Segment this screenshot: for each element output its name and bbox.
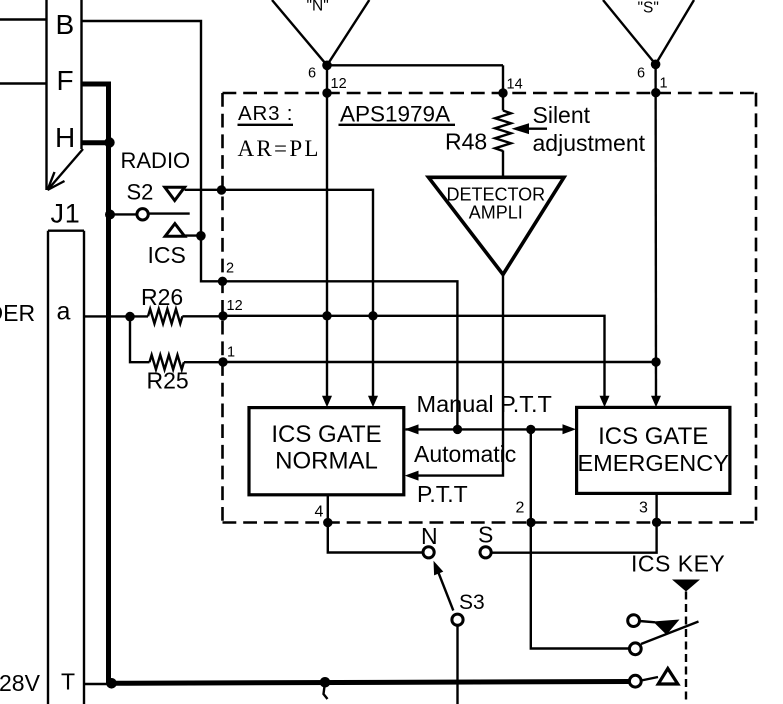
junction ICS wire — [196, 231, 206, 241]
wire pin 1 row to S line — [223, 361, 656, 363]
contact S — [480, 547, 491, 558]
node 1 (top border) — [651, 88, 660, 97]
wire pin 4 to contact N — [328, 495, 423, 553]
svg-text:J1: J1 — [51, 199, 81, 229]
svg-text:12: 12 — [227, 298, 243, 314]
thick 28V wire — [84, 683, 109, 685]
svg-text:F: F — [57, 65, 74, 96]
node 2 (left border) — [218, 277, 227, 286]
svg-text:T: T — [61, 669, 75, 695]
svg-text:P.T.T: P.T.T — [417, 481, 468, 507]
connector J1 — [48, 199, 84, 704]
ICS contact triangle — [165, 224, 184, 237]
svg-text:DER: DER — [0, 300, 35, 326]
svg-text:R25: R25 — [147, 368, 189, 394]
switch S2 — [105, 179, 190, 220]
svg-text:1: 1 — [227, 345, 235, 361]
svg-text:R26: R26 — [141, 284, 183, 310]
junction H — [104, 137, 114, 147]
junction row12/N-line — [322, 311, 331, 320]
op-amp DETECTOR AMPLI — [429, 177, 565, 274]
arrowhead into NORMAL (N line) — [322, 396, 332, 408]
arrowhead into EMERGENCY (row12 line) — [600, 396, 610, 407]
svg-text:"N": "N" — [307, 0, 329, 15]
svg-text:a: a — [57, 298, 71, 326]
RADIO contact triangle — [165, 187, 185, 200]
svg-text:ICS: ICS — [148, 242, 186, 268]
junction row1/S-line — [651, 357, 660, 366]
switch ICS KEY upper contact — [628, 615, 640, 627]
node 2 (bottom border) — [526, 518, 535, 527]
svg-text:Manual P.T.T: Manual P.T.T — [417, 391, 552, 417]
svg-text:6: 6 — [637, 66, 645, 82]
arrowhead into NORMAL (RADIO line) — [368, 396, 378, 408]
arrowhead into EMERGENCY (S line) — [651, 396, 661, 407]
triangle terminal — [658, 669, 678, 685]
wire pin 12 row to ICS GATE EMERGENCY — [223, 316, 605, 396]
wire pin 2 bottom to ICS KEY switch — [531, 429, 630, 648]
node 14 (top border) — [498, 88, 507, 97]
wire RADIO contact to ICS GATE NORMAL input — [185, 190, 373, 396]
junction on dashed border (RADIO wire) — [217, 185, 226, 194]
svg-text:AMPLI: AMPLI — [469, 203, 523, 223]
block ICS GATE EMERGENCY — [577, 407, 730, 493]
junction Manual/B-line — [453, 425, 462, 434]
svg-text:adjustment: adjustment — [533, 130, 646, 156]
svg-text:APS1979A: APS1979A — [340, 102, 450, 127]
junction on 28V wire — [320, 677, 331, 688]
switch S3 — [434, 561, 485, 626]
svg-text:S2: S2 — [127, 179, 154, 204]
node 1 (left border) — [218, 357, 227, 366]
wire branch down to R25 — [130, 317, 150, 363]
svg-text:NORMAL: NORMAL — [275, 448, 378, 475]
antenna triangle "N" — [272, 0, 369, 70]
svg-text:DETECTOR: DETECTOR — [446, 185, 545, 205]
antenna triangle "S" — [603, 0, 694, 69]
junction Manual/pin2B-line — [526, 425, 535, 434]
svg-text:2: 2 — [516, 500, 525, 517]
wire R48 to detector — [502, 151, 504, 178]
svg-text:N: N — [421, 523, 438, 549]
wire pin 14 down to R48 — [502, 65, 504, 110]
wire N tip down through pin 12 to ICS GATE NORMAL — [326, 65, 328, 396]
resistor R25 — [150, 355, 184, 370]
junction row12/RADIO-line — [368, 311, 377, 320]
silent adjustment arrow — [527, 127, 547, 129]
svg-text:ICS GATE: ICS GATE — [598, 423, 708, 450]
wire upper contact to pusher — [640, 621, 656, 622]
svg-text:S3: S3 — [459, 591, 485, 614]
svg-text:Automatic: Automatic — [414, 441, 516, 467]
svg-text:14: 14 — [507, 77, 523, 93]
svg-text:AR=PL: AR=PL — [238, 136, 321, 161]
ICS KEY actuator triangle — [672, 580, 700, 592]
wire R26 to pin 12 — [182, 315, 223, 317]
svg-text:R48: R48 — [445, 129, 487, 155]
contact 28V end — [629, 675, 641, 687]
dashed module border AR3 — [223, 93, 757, 523]
wire R25 to pin 1 — [184, 361, 223, 363]
wire to triangle terminal — [641, 677, 658, 681]
switch ICS KEY lower contact — [629, 643, 641, 655]
wire B to node 2 and down to Manual P.T.T line — [82, 21, 458, 429]
svg-text:AR3 :: AR3 : — [238, 102, 293, 125]
wire pin 3 to contact S — [491, 493, 656, 552]
wire F to thick 28V bus — [82, 84, 109, 683]
wire stub below junction — [324, 682, 328, 699]
junction a-branch — [125, 312, 135, 322]
wire Manual P.T.T — [406, 428, 564, 430]
svg-text:1: 1 — [660, 76, 668, 92]
resistor R26 — [148, 309, 182, 324]
switch ICS KEY lever — [641, 622, 699, 645]
svg-text:"S": "S" — [638, 0, 659, 17]
node 3 (bottom border) — [652, 518, 661, 527]
ICS KEY dashed linkage — [685, 592, 687, 704]
wire pin a to resistors — [84, 315, 148, 317]
pusher triangle — [653, 620, 680, 635]
resistor R48 — [495, 111, 511, 152]
svg-text:ICS GATE: ICS GATE — [271, 421, 381, 448]
svg-text:H: H — [55, 122, 75, 153]
contact N — [423, 547, 434, 558]
wire N tip to pin 14 line — [327, 64, 503, 66]
wire H stub to bus — [82, 140, 109, 145]
node 12 (left border) — [218, 311, 227, 320]
svg-text:12: 12 — [331, 76, 347, 92]
svg-text:Silent: Silent — [533, 102, 591, 128]
svg-text:EMERGENCY: EMERGENCY — [577, 450, 729, 476]
wire ICS contact to B line — [185, 234, 201, 236]
wire detector output to Automatic P.T.T — [418, 275, 503, 476]
wire stub into pin B from left edge — [0, 18, 47, 20]
svg-text:RADIO: RADIO — [121, 148, 191, 173]
svg-text:6: 6 — [308, 66, 316, 82]
block ICS GATE NORMAL — [249, 408, 404, 495]
svg-text:B: B — [56, 9, 75, 40]
connector strip top-left (B/F/H) — [47, 0, 84, 190]
wire S tip down through pin 1 to ICS GATE EMERGENCY — [654, 64, 657, 396]
wire S3 down — [456, 625, 458, 704]
node 12 (top border) — [322, 88, 331, 97]
wire stub into pin F from left edge — [0, 82, 47, 84]
svg-text:ICS KEY: ICS KEY — [631, 550, 725, 576]
svg-text:3: 3 — [639, 500, 648, 517]
svg-text:4: 4 — [315, 504, 324, 521]
node 4 (bottom border) — [323, 518, 332, 527]
svg-text:S: S — [478, 522, 493, 548]
svg-text:28V: 28V — [0, 670, 41, 696]
svg-text:2: 2 — [226, 261, 234, 277]
